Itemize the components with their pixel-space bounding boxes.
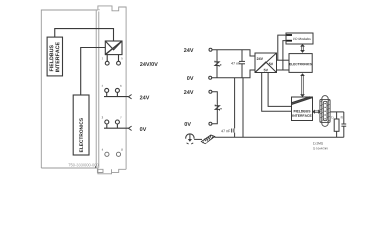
wire: terminal 7 stem xyxy=(116,124,118,128)
value label 47 nF (C2) xyxy=(221,130,230,132)
housing latch mark bottom xyxy=(95,166,96,167)
wire: terminal 3 stem xyxy=(106,124,108,128)
wire: converter isolated 5V to fieldbus interface xyxy=(268,73,291,107)
wire: field supply branch with suppressor Z2 xyxy=(212,92,217,124)
wire: suppressor Z1 branch xyxy=(216,50,218,78)
D-SUB fieldbus connector X5 body xyxy=(320,96,330,127)
earth ground symbol xyxy=(186,134,194,144)
footnote marker 1) at resistor xyxy=(331,116,333,119)
net label 24V field supply xyxy=(184,90,194,94)
terminal contact 8 xyxy=(116,152,120,156)
pin number 7 xyxy=(120,117,121,119)
wire: converter 0V to electronics xyxy=(277,69,290,71)
pin number 8 xyxy=(121,149,122,151)
wire: converter output stem to terminal 5 xyxy=(118,55,120,62)
wire: 0V rail to converter input xyxy=(212,70,255,78)
pin number 3 xyxy=(102,117,103,119)
I/O modules supply contact upper xyxy=(287,34,293,36)
terminal contact 4 xyxy=(105,152,109,156)
terminal X4 0V field xyxy=(209,122,212,125)
DIN carrier rail symbol xyxy=(201,135,215,144)
pin number 5 xyxy=(121,57,122,59)
terminal contact 1 xyxy=(105,61,109,65)
connector pins xyxy=(325,103,326,119)
node label 24V/0V xyxy=(140,62,158,66)
pin number 4 xyxy=(102,149,103,151)
terminal contact 2 xyxy=(105,88,109,92)
wire: 24V field supply feed xyxy=(104,96,128,98)
label I/O Modules xyxy=(293,38,311,40)
capacitor C1 47nF plates xyxy=(239,61,245,63)
suppressor diode Z2 xyxy=(215,105,222,111)
wire: converter 5V to electronics xyxy=(277,59,290,61)
wire: converter output stem to terminal 1 xyxy=(106,55,108,62)
wire: terminal 6 stem xyxy=(116,92,118,96)
label INTERFACE (vertical) xyxy=(55,42,59,72)
converter label 24V xyxy=(257,57,263,60)
value label 47 nF (C1) xyxy=(231,62,240,64)
suppressor diode Z1 xyxy=(215,61,222,67)
footnote value 2) 10nF/2kV xyxy=(313,147,328,150)
DC/DC converter U4 24V to 5V xyxy=(255,53,277,73)
terminal X3 24V field xyxy=(209,90,212,93)
wire: converter to electronics block xyxy=(81,48,106,96)
footnote marker 2) at capacitor xyxy=(341,116,343,119)
electronics box right xyxy=(289,54,312,73)
net label 0V system supply xyxy=(187,76,193,80)
net label 0V field supply xyxy=(184,122,190,126)
part number label 750-333/000-000 xyxy=(68,163,98,166)
wire: resistor R1 to PE xyxy=(336,131,338,137)
capacitor C1 47nF branch wires xyxy=(241,50,243,78)
supply arrow 0V xyxy=(128,126,131,130)
I/O modules supply contact lower xyxy=(287,40,293,42)
wire: terminal 2 stem xyxy=(106,92,108,96)
data arrow fieldbus interface to connector xyxy=(313,110,320,113)
net label 0V xyxy=(140,127,146,131)
net label 24V xyxy=(140,96,150,100)
data bus arrow electronics to fieldbus interface xyxy=(301,74,304,97)
wire: 0V to shield capacitor C2 xyxy=(234,78,236,138)
pin number 1 xyxy=(102,57,103,59)
capacitor C2 47nF plates xyxy=(232,129,234,133)
electronics block U2 (left module) xyxy=(73,95,89,155)
wire: 0V to PE junction xyxy=(242,78,244,138)
label INTERFACE right xyxy=(292,114,311,116)
connector flange hatching xyxy=(320,100,329,122)
terminal contact 5 xyxy=(117,61,121,65)
label ELECTRONICS (vertical) xyxy=(79,118,82,152)
wire: connector shield node xyxy=(330,111,344,113)
label FIELDBUS right xyxy=(294,110,311,112)
pin number 2 xyxy=(102,85,103,87)
wire: shield to capacitor C3 xyxy=(343,112,345,124)
converter label 5V isolated xyxy=(264,69,268,72)
terminal contact 6 xyxy=(115,88,119,92)
terminal X1 24V system xyxy=(209,48,212,51)
wire: 5V tap to I/O modules xyxy=(278,35,287,60)
housing latch mark top xyxy=(95,8,100,11)
capacitor C3 10nF plates xyxy=(341,124,346,126)
wire: converter isolated 0V to fieldbus interface xyxy=(262,73,292,112)
pin number 6 xyxy=(120,85,121,87)
wire: 0V field supply feed xyxy=(104,127,128,129)
resistor R1 2M ohm xyxy=(334,119,339,131)
supply arrow 24V xyxy=(128,95,131,99)
footnote value 1) 2M ohm xyxy=(313,142,323,145)
DC/DC converter U3 (left module) xyxy=(105,41,122,55)
fieldbus interface block U1 (left module) xyxy=(47,37,62,76)
terminal contact 3 xyxy=(105,120,109,124)
converter label 5V output xyxy=(269,63,273,66)
wire: earth to rail symbol xyxy=(194,138,202,140)
terminal X2 0V system xyxy=(209,76,212,79)
I/O modules box xyxy=(286,33,313,44)
wire: shield to resistor R1 xyxy=(336,112,338,119)
wire: fieldbus interface to converter input xyxy=(55,29,114,41)
fieldbus interface diagonal stripe xyxy=(292,97,313,105)
net label 24V system supply xyxy=(184,48,194,52)
label ELECTRONICS right xyxy=(289,63,312,65)
fieldbus interface box right xyxy=(292,97,313,121)
data bus arrow I/O modules to electronics xyxy=(301,44,304,52)
terminal contact 7 xyxy=(115,120,119,124)
wire: capacitor C3 to PE xyxy=(343,126,345,137)
label FIELDBUS (vertical) xyxy=(49,45,53,71)
left coupler module housing outline xyxy=(41,6,126,174)
PE net line xyxy=(215,136,344,138)
wire: 24V rail to converter input xyxy=(212,50,255,56)
wire: 0V tap to I/O modules xyxy=(283,41,286,70)
